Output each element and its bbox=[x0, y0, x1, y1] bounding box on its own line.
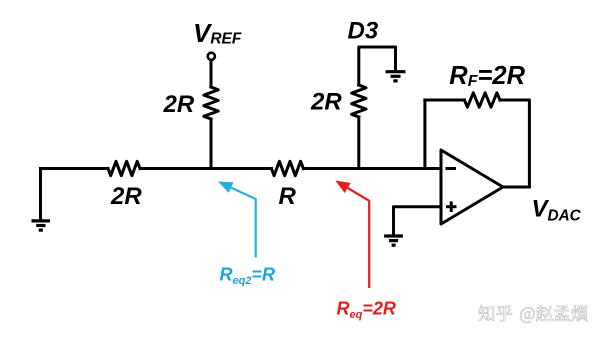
feedback left vertical wire bbox=[423, 100, 426, 169]
wire left vertical to ground bbox=[39, 169, 42, 220]
annotation arrow cyan (to node A) bbox=[231, 188, 256, 258]
svg-text:D3: D3 bbox=[348, 18, 379, 45]
ground (D3 branch) bbox=[386, 72, 406, 81]
feedback top wire left bbox=[425, 99, 465, 102]
feedback top wire right + right vertical bbox=[500, 100, 529, 187]
svg-text:2R: 2R bbox=[110, 183, 142, 210]
node B vertical wire lower bbox=[357, 117, 360, 169]
svg-text:2R: 2R bbox=[163, 91, 195, 118]
ground (left) bbox=[32, 221, 51, 230]
wire between 2R and node A bbox=[140, 167, 271, 170]
svg-text:RF=2R: RF=2R bbox=[449, 62, 525, 90]
wire VREF terminal to resistor bbox=[210, 61, 213, 88]
resistor 2R (VREF branch) bbox=[204, 87, 218, 119]
wire D3 branch upper bbox=[359, 47, 396, 85]
terminal VREF circle bbox=[208, 53, 215, 60]
op-amp minus sign bbox=[446, 167, 457, 170]
wire node B to op-amp bbox=[303, 167, 441, 170]
wire op-amp plus input bbox=[394, 207, 442, 235]
wire op-amp output bbox=[503, 186, 529, 189]
resistor R (middle horizontal) bbox=[271, 161, 303, 175]
wire left segment bbox=[41, 167, 109, 170]
annotation arrow red (to node B) bbox=[348, 188, 370, 288]
resistor 2R (left horizontal) bbox=[108, 161, 140, 175]
svg-text:Req=2R: Req=2R bbox=[337, 298, 396, 321]
svg-text:2R: 2R bbox=[310, 89, 342, 116]
op-amp plus sign bbox=[446, 201, 457, 212]
op-amp U1 triangle bbox=[441, 150, 503, 224]
watermark 知乎 @赵孟煩 bbox=[479, 305, 588, 323]
ground (op-amp plus input) bbox=[384, 236, 403, 245]
node A vertical wire lower bbox=[210, 119, 213, 169]
resistor 2R (D3 branch) bbox=[352, 85, 366, 117]
svg-text:R: R bbox=[279, 183, 297, 210]
resistor RF=2R (feedback) bbox=[464, 93, 500, 107]
